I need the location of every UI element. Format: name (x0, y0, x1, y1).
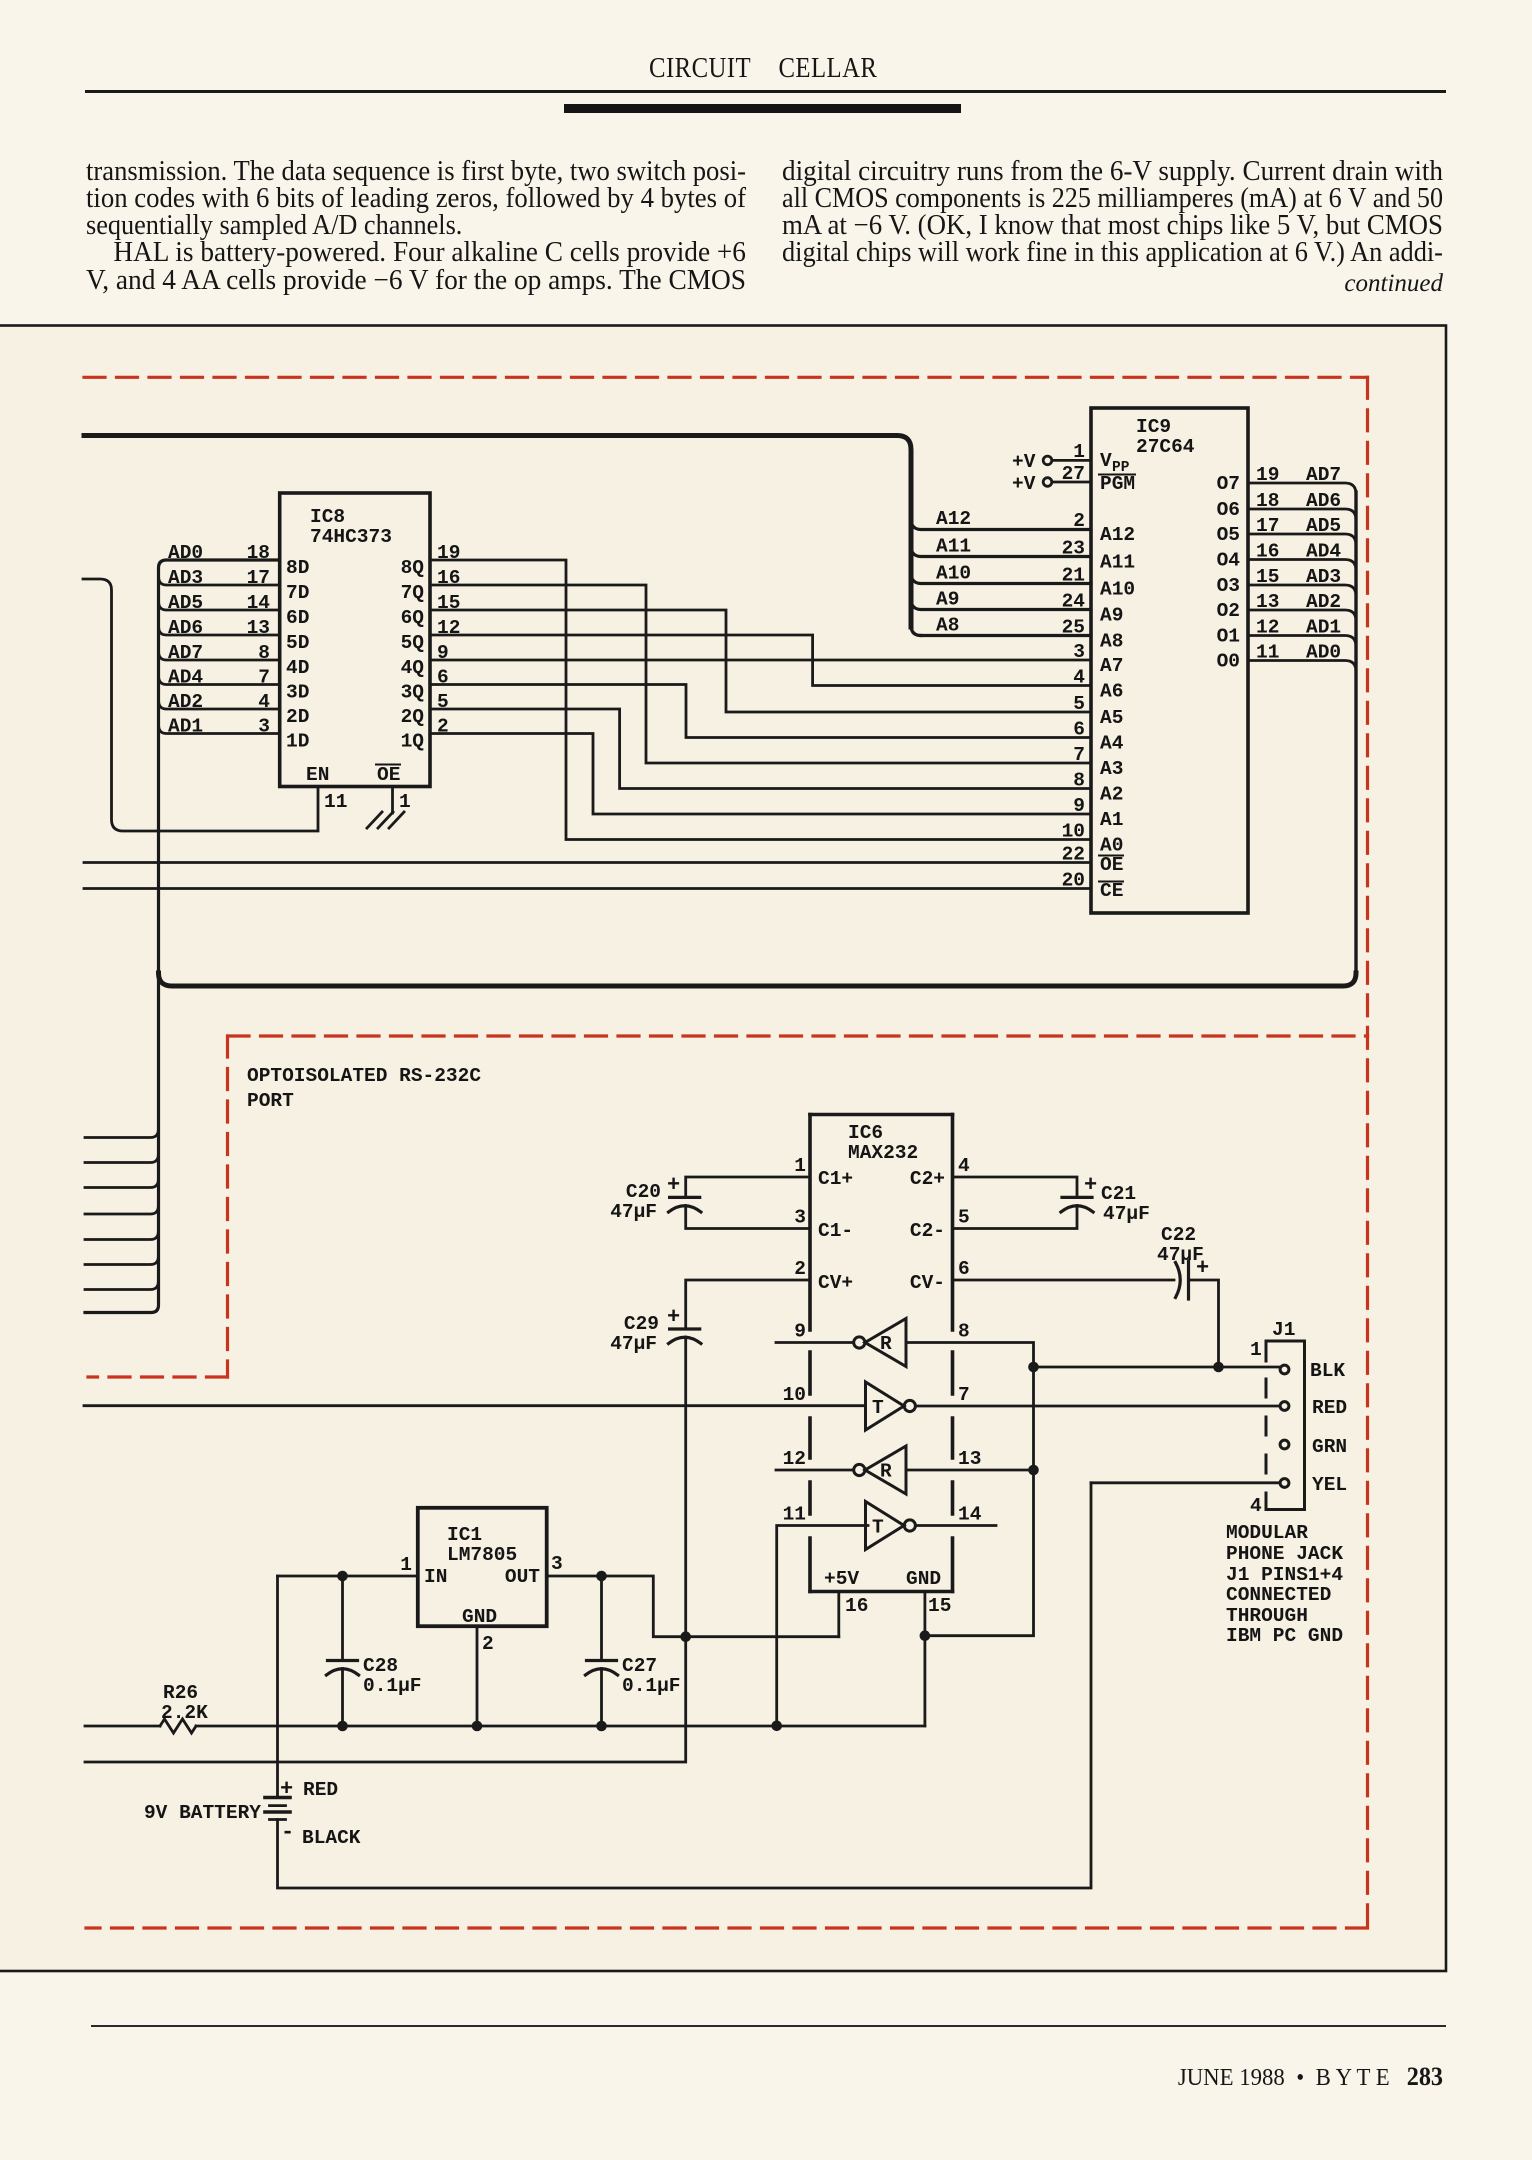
svg-text:3Q: 3Q (401, 682, 425, 704)
svg-text:10: 10 (783, 1384, 806, 1406)
svg-text:A12: A12 (936, 508, 971, 530)
wire IC1 GND stub (476, 1626, 479, 1726)
svg-text:A4: A4 (1100, 733, 1124, 755)
svg-text:24: 24 (1062, 591, 1086, 613)
svg-text:+5V: +5V (824, 1568, 859, 1590)
svg-text:BLK: BLK (1310, 1360, 1345, 1382)
wire A11 hook (911, 546, 1091, 557)
wire pin8 R1 in (906, 1343, 1034, 1368)
svg-text:AD6: AD6 (168, 617, 203, 639)
footer rule (91, 2025, 1446, 2027)
svg-text:+V: +V (1012, 473, 1036, 495)
svg-text:5: 5 (1073, 693, 1085, 715)
overline IC9 OE (1099, 855, 1123, 857)
svg-text:3D: 3D (286, 682, 309, 704)
svg-text:LM7805: LM7805 (447, 1544, 517, 1566)
header title (649, 53, 877, 85)
svg-text:AD1: AD1 (168, 716, 203, 738)
svg-text:A7: A7 (1100, 655, 1123, 677)
svg-text:O1: O1 (1217, 626, 1240, 648)
capacitor C21 plates (1062, 1196, 1092, 1199)
wire O2 to AD2 hook (1248, 610, 1356, 621)
wire A8 (921, 634, 1091, 637)
svg-text:0.1μF: 0.1μF (622, 1675, 681, 1697)
svg-text:AD3: AD3 (1306, 566, 1341, 588)
svg-text:GND: GND (906, 1568, 941, 1590)
svg-text:19: 19 (437, 542, 460, 564)
svg-text:+V: +V (1012, 451, 1036, 473)
svg-text:AD2: AD2 (168, 691, 203, 713)
wire CV- to C22 (953, 1279, 1175, 1282)
svg-text:AD5: AD5 (168, 592, 203, 614)
wire AD3 stub (159, 577, 280, 585)
wire opto stub 6 (85, 1257, 158, 1265)
svg-text:AD7: AD7 (168, 642, 203, 664)
svg-text:12: 12 (783, 1448, 806, 1470)
svg-text:11: 11 (324, 791, 347, 813)
wire opto stub 5 (85, 1232, 158, 1240)
svg-text:3: 3 (794, 1207, 806, 1229)
wire pin7 RED line (915, 1405, 1280, 1408)
svg-text:AD2: AD2 (1306, 591, 1341, 613)
svg-text:AD4: AD4 (168, 667, 203, 689)
svg-text:C1+: C1+ (818, 1168, 853, 1190)
svg-text:15: 15 (928, 1595, 951, 1617)
svg-text:8Q: 8Q (401, 557, 425, 579)
connector J1 modular phone jack (1266, 1341, 1305, 1510)
capacitor plates (265, 1197, 1189, 1819)
svg-text:13: 13 (958, 1448, 981, 1470)
dashed board boundary bottom (86, 1926, 1368, 1929)
capacitor C27 wires (600, 1576, 603, 1726)
svg-text:16: 16 (437, 567, 460, 589)
battery 9V plates (265, 1796, 290, 1800)
svg-text:GND: GND (462, 1606, 497, 1628)
svg-text:C21: C21 (1101, 1183, 1136, 1205)
svg-text:+: + (667, 1305, 680, 1330)
figure frame (0, 326, 1446, 1972)
svg-text:25: 25 (1062, 617, 1085, 639)
svg-text:PORT: PORT (247, 1090, 294, 1112)
thick ground return bus bottom (159, 973, 1357, 986)
svg-text:IC6: IC6 (848, 1122, 883, 1144)
svg-text:A2: A2 (1100, 784, 1123, 806)
svg-text:8: 8 (258, 642, 270, 664)
svg-text:6: 6 (958, 1258, 970, 1280)
wire battery negative to YEL (278, 1483, 1092, 1888)
svg-text:IC8: IC8 (310, 506, 345, 528)
svg-text:A11: A11 (1100, 552, 1135, 574)
J1 pin 2 RED circle (1280, 1402, 1289, 1411)
svg-text:1: 1 (399, 791, 411, 813)
wire O1 to AD1 hook (1248, 636, 1356, 647)
svg-text:PHONE JACK: PHONE JACK (1226, 1543, 1343, 1565)
capacitor C21 wires (953, 1177, 1078, 1197)
wire AD1 stub (159, 726, 280, 734)
wire O0 to AD0 hook (1248, 661, 1356, 672)
dashed optoisolated box left (226, 1036, 229, 1377)
wire O3 to AD3 hook (1248, 585, 1356, 596)
wire 1Q to A1 (430, 734, 1091, 815)
header rule (85, 90, 1446, 93)
svg-text:BLACK: BLACK (302, 1827, 361, 1849)
capacitor C22 plates (1176, 1263, 1181, 1298)
svg-text:RED: RED (1312, 1397, 1347, 1419)
wire 6Q to A5 (430, 610, 1091, 712)
svg-text:47μF: 47μF (610, 1201, 657, 1223)
svg-text:4D: 4D (286, 657, 309, 679)
wire OE long (84, 861, 1091, 864)
svg-text:7: 7 (958, 1384, 970, 1406)
header thick bar (564, 104, 961, 113)
ground symbol under IC8 OE (367, 812, 404, 828)
svg-text:17: 17 (1256, 515, 1279, 537)
svg-text:O2: O2 (1217, 600, 1240, 622)
overline IC8 OE (376, 764, 400, 766)
svg-text:CE: CE (1100, 880, 1123, 902)
svg-text:J1 PINS1+4: J1 PINS1+4 (1226, 1564, 1343, 1586)
svg-text:A9: A9 (1100, 605, 1123, 627)
svg-text:8: 8 (1073, 770, 1085, 792)
wire O5 to AD5 hook (1248, 534, 1356, 545)
svg-text:1: 1 (1250, 1339, 1262, 1361)
svg-text:T: T (872, 1517, 884, 1539)
svg-text:MAX232: MAX232 (848, 1142, 918, 1164)
svg-text:9: 9 (794, 1321, 806, 1343)
wire ground bus with R26 (85, 1725, 925, 1728)
svg-text:2: 2 (794, 1258, 806, 1280)
svg-text:4: 4 (1250, 1495, 1262, 1517)
svg-text:1Q: 1Q (401, 731, 425, 753)
svg-text:O4: O4 (1217, 550, 1241, 572)
svg-text:A9: A9 (936, 589, 959, 611)
svg-text:+: + (1084, 1173, 1097, 1198)
wire IC1 IN rail (278, 1575, 418, 1578)
svg-text:18: 18 (247, 542, 270, 564)
svg-text:2Q: 2Q (401, 706, 425, 728)
svg-text:6: 6 (437, 667, 449, 689)
dashed optoisolated box stub (88, 1375, 228, 1378)
svg-text:9: 9 (1073, 795, 1085, 817)
svg-text:27C64: 27C64 (1136, 436, 1195, 458)
svg-text:5Q: 5Q (401, 632, 425, 654)
svg-text:C2+: C2+ (910, 1168, 945, 1190)
svg-text:OE: OE (1100, 854, 1123, 876)
node A12-A8 hook bus (911, 519, 1091, 636)
svg-text:C27: C27 (622, 1655, 657, 1677)
capacitor C28 plates (328, 1659, 358, 1662)
svg-text:1: 1 (1073, 441, 1085, 463)
svg-text:AD3: AD3 (168, 567, 203, 589)
svg-text:O7: O7 (1217, 473, 1240, 495)
svg-text:C22: C22 (1161, 1224, 1196, 1246)
svg-text:6: 6 (1073, 719, 1085, 741)
svg-text:CV+: CV+ (818, 1272, 853, 1294)
IC8 74HC373 (280, 493, 430, 787)
svg-text:AD6: AD6 (1306, 490, 1341, 512)
wire O6 to AD6 hook (1248, 509, 1356, 520)
svg-text:7: 7 (1073, 744, 1085, 766)
svg-text:RED: RED (303, 1779, 338, 1801)
svg-text:2.2K: 2.2K (161, 1702, 208, 1724)
wire BLK line (1034, 1366, 1281, 1369)
svg-text:C2-: C2- (910, 1220, 945, 1242)
svg-text:C1-: C1- (818, 1220, 853, 1242)
svg-text:GRN: GRN (1312, 1436, 1347, 1458)
svg-text:15: 15 (437, 592, 460, 614)
svg-text:A11: A11 (936, 536, 971, 558)
svg-text:THROUGH: THROUGH (1226, 1605, 1308, 1627)
svg-text:AD1: AD1 (1306, 617, 1341, 639)
svg-text:17: 17 (247, 567, 270, 589)
thick +V bus top (84, 436, 911, 628)
svg-text:8: 8 (958, 1321, 970, 1343)
footer text (978, 2062, 1443, 2092)
dashed optoisolated box top (228, 1034, 1368, 1037)
dashed board boundary top (84, 376, 1368, 379)
wire AD2 stub (159, 701, 280, 709)
svg-text:2D: 2D (286, 706, 309, 728)
body text right column (782, 156, 1443, 188)
svg-text:10: 10 (1062, 821, 1085, 843)
svg-text:R: R (880, 1461, 892, 1483)
svg-text:-: - (281, 1820, 294, 1845)
continued (1143, 270, 1443, 298)
wire 7Q to A3 (430, 585, 1091, 763)
svg-text:CV-: CV- (910, 1272, 945, 1294)
svg-text:AD0: AD0 (168, 542, 203, 564)
IC9 27C64 (1091, 408, 1248, 913)
wire 4Q to A7 (430, 659, 1091, 662)
svg-text:1D: 1D (286, 731, 309, 753)
wire pin10 T1 in long (84, 1404, 866, 1407)
svg-text:6D: 6D (286, 607, 309, 629)
svg-text:IC9: IC9 (1136, 416, 1171, 438)
svg-text:A6: A6 (1100, 681, 1123, 703)
svg-text:IC1: IC1 (447, 1524, 482, 1546)
svg-text:A3: A3 (1100, 758, 1123, 780)
capacitor C20 wires (686, 1177, 810, 1197)
overline IC9 CE (1099, 881, 1123, 883)
IC1 LM7805 (418, 1508, 547, 1626)
wire CE long (84, 887, 1091, 890)
svg-text:2: 2 (1073, 510, 1085, 532)
resistor R26 zigzag (160, 1719, 196, 1733)
svg-text:6Q: 6Q (401, 607, 425, 629)
wire opto stub 2 (85, 1155, 158, 1163)
svg-text:AD0: AD0 (1306, 642, 1341, 664)
svg-text:C29: C29 (624, 1313, 659, 1335)
svg-text:5: 5 (437, 691, 449, 713)
svg-text:74HC373: 74HC373 (310, 526, 392, 548)
svg-text:18: 18 (1256, 490, 1279, 512)
svg-text:A10: A10 (1100, 579, 1135, 601)
wire R1 out pin9 stub (776, 1341, 853, 1344)
wire pin27 PGM (1052, 481, 1091, 484)
transmitter buffer T2 (866, 1502, 905, 1550)
svg-text:4: 4 (958, 1155, 970, 1177)
svg-text:2: 2 (482, 1633, 494, 1655)
svg-text:O5: O5 (1217, 524, 1240, 546)
wire opto stub 4 (85, 1206, 158, 1214)
svg-text:47μF: 47μF (1103, 1203, 1150, 1225)
svg-text:16: 16 (845, 1595, 868, 1617)
wire R2 out pin12 stub (776, 1469, 853, 1472)
svg-text:O3: O3 (1217, 575, 1240, 597)
dashed board boundary right (1366, 377, 1369, 1928)
wire A9 hook (911, 599, 1091, 610)
svg-text:23: 23 (1062, 538, 1085, 560)
svg-text:12: 12 (437, 617, 460, 639)
wire AD4 stub (159, 677, 280, 685)
wire pin11 T2 in (777, 1526, 868, 1726)
wire O7 to AD7 hook (1248, 483, 1356, 494)
capacitor C29 plates (670, 1327, 700, 1330)
svg-text:4: 4 (258, 691, 270, 713)
svg-text:1: 1 (400, 1554, 412, 1576)
svg-text:OPTOISOLATED RS-232C: OPTOISOLATED RS-232C (247, 1065, 481, 1087)
svg-text:EN: EN (306, 764, 329, 786)
svg-text:13: 13 (1256, 591, 1279, 613)
wire pin13 R2 in (906, 1469, 1034, 1472)
svg-text:R26: R26 (163, 1682, 198, 1704)
svg-text:14: 14 (247, 592, 271, 614)
svg-text:AD5: AD5 (1306, 515, 1341, 537)
J1 pin 1 BLK circle (1280, 1365, 1289, 1374)
svg-text:OE: OE (377, 764, 400, 786)
svg-text:CONNECTED: CONNECTED (1226, 1584, 1331, 1606)
svg-text:+: + (280, 1777, 293, 1802)
svg-text:9: 9 (437, 642, 449, 664)
svg-text:9V BATTERY: 9V BATTERY (144, 1802, 261, 1824)
svg-text:7: 7 (258, 667, 270, 689)
svg-text:T: T (872, 1397, 884, 1419)
svg-text:PGM: PGM (1100, 473, 1135, 495)
svg-text:7D: 7D (286, 582, 309, 604)
svg-text:O6: O6 (1217, 499, 1240, 521)
svg-text:13: 13 (247, 617, 270, 639)
svg-text:MODULAR: MODULAR (1226, 1522, 1308, 1544)
wire AD6 stub (159, 627, 280, 635)
svg-text:22: 22 (1062, 844, 1085, 866)
svg-text:21: 21 (1062, 565, 1085, 587)
capacitor C29 wires (686, 1280, 810, 1329)
svg-text:A10: A10 (936, 563, 971, 585)
wire 5Q to A6 (430, 635, 1091, 686)
wire opto stub 3 (85, 1180, 158, 1188)
wire A12 hook (911, 519, 1091, 530)
svg-text:11: 11 (783, 1504, 806, 1526)
wire 2Q to A2 (430, 709, 1091, 789)
svg-text:16: 16 (1256, 541, 1279, 563)
svg-text:14: 14 (958, 1504, 982, 1526)
svg-text:A1: A1 (1100, 809, 1123, 831)
capacitor C20 plates (670, 1196, 700, 1199)
+V pin1 circle (1043, 456, 1052, 465)
wire AD7 stub (159, 652, 280, 660)
op-amp section: IC6 MAX232 (810, 1115, 953, 1592)
svg-text:47μF: 47μF (610, 1333, 657, 1355)
wire pin14 T2 out stub (915, 1524, 996, 1527)
svg-text:IN: IN (424, 1566, 447, 1588)
svg-text:4Q: 4Q (401, 657, 425, 679)
wire pin16 +5V stub (837, 1592, 840, 1637)
wire battery positive lead (276, 1576, 279, 1798)
svg-text:J1: J1 (1272, 1319, 1295, 1341)
capacitor C27 plates (587, 1659, 617, 1662)
body text left column (86, 156, 746, 188)
capacitor C28 wires (341, 1576, 344, 1726)
wire EN path (83, 579, 318, 831)
receiver buffer R1 (865, 1319, 906, 1367)
svg-text:8D: 8D (286, 557, 309, 579)
svg-text:27: 27 (1062, 463, 1085, 485)
svg-text:0.1μF: 0.1μF (363, 1675, 422, 1697)
svg-text:3: 3 (1073, 641, 1085, 663)
wire O4 to AD4 hook (1248, 560, 1356, 571)
svg-text:O0: O0 (1217, 651, 1240, 673)
svg-text:3: 3 (258, 716, 270, 738)
wire opto stub 7 (85, 1282, 158, 1290)
wire pin15 GND stub (924, 1592, 927, 1726)
wire AD data bus right vertical (1354, 492, 1357, 974)
svg-text:4: 4 (1073, 667, 1085, 689)
svg-text:19: 19 (1256, 464, 1279, 486)
svg-text:+: + (1196, 1256, 1209, 1281)
wire 3Q to A4 (430, 685, 1091, 738)
svg-text:IBM PC GND: IBM PC GND (1226, 1625, 1343, 1647)
svg-text:1: 1 (794, 1155, 806, 1177)
wire pin1 VPP (1052, 459, 1091, 462)
overline IC9 PGM (1099, 474, 1135, 476)
svg-text:15: 15 (1256, 566, 1279, 588)
wire +5V rail from IC1 OUT (547, 1576, 839, 1637)
wire A10 hook (911, 573, 1091, 584)
J1 pin 4 YEL circle (1280, 1479, 1289, 1488)
svg-text:A5: A5 (1100, 707, 1123, 729)
svg-text:R: R (880, 1333, 892, 1355)
junction dots (337, 1362, 1224, 1732)
transmitter buffer T1 (866, 1382, 905, 1430)
svg-text:+: + (667, 1173, 680, 1198)
svg-text:OUT: OUT (505, 1566, 540, 1588)
svg-text:A8: A8 (1100, 631, 1123, 653)
svg-text:AD4: AD4 (1306, 541, 1341, 563)
J1 pin 3 GRN circle (1280, 1440, 1289, 1449)
svg-text:C20: C20 (626, 1181, 661, 1203)
wire 8Q to A0 (430, 560, 1091, 840)
wire right junction vertical to GND rail (925, 1367, 1034, 1636)
wire C22 to J1 BLK junction (1189, 1280, 1219, 1367)
svg-text:A12: A12 (1100, 524, 1135, 546)
wire opto stub 1 (85, 1130, 158, 1138)
svg-text:A8: A8 (936, 615, 959, 637)
svg-text:12: 12 (1256, 617, 1279, 639)
svg-text:5D: 5D (286, 632, 309, 654)
svg-text:3: 3 (551, 1553, 563, 1575)
svg-text:V: V (1100, 450, 1112, 472)
svg-text:5: 5 (958, 1207, 970, 1229)
wire OE stub (391, 787, 394, 814)
svg-text:20: 20 (1062, 870, 1085, 892)
wire AD bus vertical with AD0 stub and bottom stub (85, 560, 280, 1313)
svg-text:7Q: 7Q (401, 582, 425, 604)
wire YEL line (1091, 1481, 1280, 1484)
svg-text:11: 11 (1256, 642, 1279, 664)
wire AD5 stub (159, 602, 280, 610)
receiver buffer R2 (865, 1446, 906, 1494)
svg-text:2: 2 (437, 716, 449, 738)
